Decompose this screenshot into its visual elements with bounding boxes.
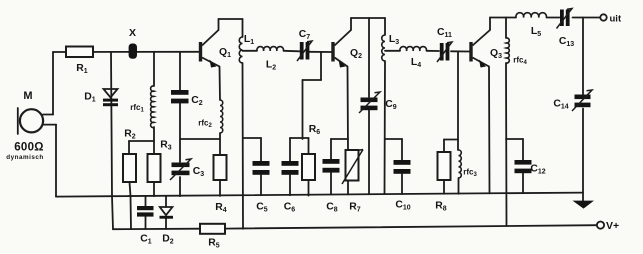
svg-text:V+: V+ <box>606 220 619 232</box>
svg-text:M: M <box>23 90 32 102</box>
svg-text:dynamisch: dynamisch <box>6 154 43 161</box>
svg-text:600Ω: 600Ω <box>14 142 44 154</box>
svg-text:X: X <box>129 27 136 39</box>
svg-text:uit: uit <box>610 14 622 25</box>
